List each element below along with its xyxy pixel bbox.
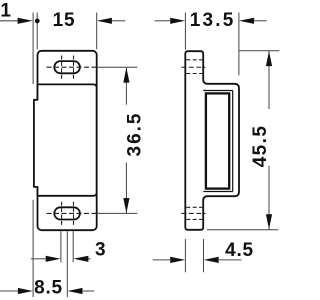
hidden slot lines, bottom flange (dashed): [186, 206, 202, 208]
dim 13.5: extension lines: [184, 13, 186, 50]
housing body outline (notched at left top/bottom): [34, 84, 97, 195]
svg-text:8.5: 8.5: [34, 278, 63, 299]
outer profile: plate flange + housing: [185, 51, 239, 230]
dim 15: right extension line: [96, 13, 98, 50]
bottom slot centerline (horizontal, dashed): [47, 212, 97, 214]
dim 15: arrowhead and tail: [97, 18, 112, 24]
svg-text:36.5: 36.5: [125, 112, 146, 157]
svg-text:13.5: 13.5: [190, 10, 236, 31]
dim 45.5: dimension line: [268, 51, 270, 109]
dim 1: dot marker: [35, 19, 40, 24]
svg-text:45.5: 45.5: [250, 125, 271, 168]
dim 3: arrows and tails: [31, 258, 46, 260]
dim 4.5: extension lines: [184, 239, 186, 272]
dim 13.5: arrows and tails: [155, 20, 171, 22]
svg-text:4.5: 4.5: [225, 240, 254, 261]
dim 36.5: extension lines: [97, 66, 137, 68]
magnet block: [206, 93, 229, 188]
bottom slot hole: [54, 207, 80, 219]
top slot hole: [54, 61, 80, 73]
dim 45.5: extension lines: [239, 50, 280, 52]
svg-text:15: 15: [53, 10, 76, 31]
bottom slot arc-center lines (vertical, dashed): [61, 202, 63, 225]
dim 8.5: arrows and tails: [0, 290, 18, 292]
dim 1: leader line and arrowhead: [0, 20, 18, 22]
svg-text:1: 1: [0, 0, 11, 21]
dim 8.5: extension lines: [32, 200, 34, 297]
dim 45.5: arrowheads: [266, 51, 272, 66]
dim 36.5: arrowheads: [123, 68, 129, 83]
housing cup inner wall lines: [203, 90, 232, 92]
top slot arc-center lines (vertical, dashed): [61, 56, 63, 79]
hidden slot lines, top flange (dashed): [186, 59, 202, 61]
dim 1: extension lines at top: [32, 13, 34, 85]
top slot centerline (horizontal, dashed): [47, 66, 97, 68]
mounting plate outline: [38, 51, 97, 230]
dim 4.5: dimension line and arrows: [153, 259, 170, 261]
dim 36.5: dimension line: [125, 67, 127, 105]
svg-text:3: 3: [95, 240, 106, 261]
dim 3: extension lines below plate: [60, 231, 62, 262]
